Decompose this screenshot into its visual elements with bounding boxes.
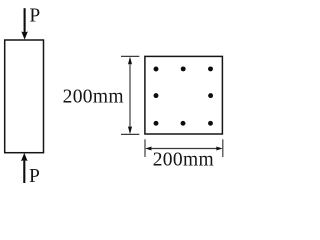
load arrow P top (downward) bbox=[21, 8, 28, 39]
rebar dot middle-left bbox=[154, 93, 159, 98]
svg-text:P: P bbox=[29, 166, 40, 187]
horizontal dimension extension tick left bbox=[144, 139, 146, 157]
rebar dot bottom-middle bbox=[181, 121, 186, 126]
vertical dimension extension tick bottom bbox=[121, 133, 139, 135]
cross-section square bbox=[145, 56, 223, 134]
svg-text:200mm: 200mm bbox=[153, 150, 214, 171]
rebar dot bottom-right bbox=[208, 121, 213, 126]
horizontal dimension line with arrowheads bbox=[145, 147, 222, 151]
load arrow P bottom (upward) bbox=[21, 153, 28, 183]
rebar dot top-left bbox=[154, 67, 159, 72]
rebar dot top-middle bbox=[181, 66, 186, 71]
svg-text:P: P bbox=[29, 6, 40, 27]
rebar dot middle-right bbox=[208, 93, 213, 98]
vertical dimension line with arrowheads bbox=[128, 57, 132, 135]
svg-text:200mm: 200mm bbox=[63, 87, 124, 108]
horizontal dimension extension tick right bbox=[222, 139, 224, 157]
rebar dot top-right bbox=[208, 66, 213, 71]
vertical dimension extension tick top bbox=[121, 55, 139, 57]
column rectangle bbox=[5, 40, 44, 153]
rebar dot bottom-left bbox=[154, 121, 159, 126]
